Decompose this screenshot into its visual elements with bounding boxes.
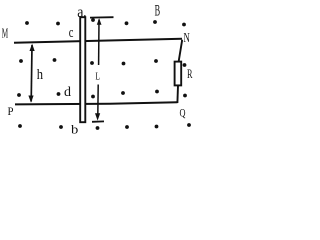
period after a [84,15,86,17]
dimension L bottom arrowhead [95,113,100,120]
svg-text:c: c [69,25,74,41]
dimension L bottom tick [92,120,104,122]
dimension L top arrowhead [97,18,102,25]
svg-text:Q: Q [180,107,186,120]
resistor R box [175,62,182,86]
svg-text:R: R [187,67,193,81]
rod ab (double-line conductor crossing both rails) [80,17,85,122]
dimension h line [30,45,33,102]
svg-text:b: b [71,123,78,137]
svg-text:N: N [184,30,190,45]
wire from N corner down to resistor top [179,40,182,62]
svg-text:d: d [64,85,71,100]
svg-text:h: h [37,67,43,83]
dimension h bottom arrowhead [28,96,33,103]
rail MN (top horizontal rail) [14,39,182,43]
dimension L line lower segment [97,85,99,117]
rail PQ (bottom horizontal rail) [15,102,178,104]
dimension L line upper segment [98,20,100,66]
wire from resistor bottom down to Q corner [176,85,179,103]
B field dots (out-of-page field region) [17,18,191,130]
svg-text:P: P [8,106,14,118]
svg-text:B: B [155,2,161,19]
svg-text:L: L [95,71,100,83]
dimension h top arrowhead [30,44,35,51]
svg-text:M: M [2,26,8,41]
svg-text:a: a [77,4,83,21]
dimension L top tick [90,16,114,18]
